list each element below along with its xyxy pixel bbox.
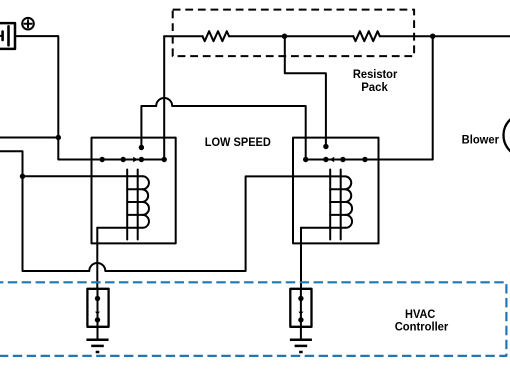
svg-text:Controller: Controller xyxy=(395,320,449,334)
relay K2 coil xyxy=(330,170,352,240)
svg-text:Pack: Pack xyxy=(361,80,388,94)
HVAC controller dashed enclosure xyxy=(0,282,506,356)
wire K1 pivot to K2 input with hop xyxy=(141,98,305,160)
svg-text:Blower: Blower xyxy=(462,134,500,147)
node K2 contact c xyxy=(340,157,345,162)
ground GND1 xyxy=(86,340,108,352)
node blower feed xyxy=(430,34,435,39)
node coil supply tee xyxy=(20,174,25,179)
relay K2 box xyxy=(293,138,379,244)
wire stub left at y=137.5 xyxy=(0,137,58,139)
blower motor M1 xyxy=(504,114,510,157)
node K2 contact d xyxy=(362,157,367,162)
wire K2 coil bottom xyxy=(301,227,346,229)
switch S2 box xyxy=(290,289,311,327)
wire blower node down to K2 contact xyxy=(306,36,433,159)
wire K1 contact d to resistor rail xyxy=(163,36,165,159)
arrow K1 movable contact xyxy=(133,157,138,162)
wire K1 coil bottom xyxy=(97,227,142,229)
wire coil supply net xyxy=(0,151,346,271)
arrow K2 movable contact xyxy=(330,157,335,162)
wire battery to relay K1 common xyxy=(15,36,164,159)
wire K2 coil to switch S2 xyxy=(300,228,302,289)
node K1 pivot xyxy=(139,145,144,150)
relay K1 coil xyxy=(127,170,149,240)
node battery junction xyxy=(56,135,61,140)
resistor pack dashed enclosure xyxy=(173,10,414,57)
switch S1 internals xyxy=(95,289,100,327)
plus terminal symbol xyxy=(22,18,34,30)
node K1 contact a xyxy=(100,157,105,162)
wire K1 coil to switch S1 xyxy=(96,228,98,289)
node K1 contact c xyxy=(139,157,144,162)
battery B1 xyxy=(0,23,15,49)
switch S2 internals xyxy=(298,289,303,327)
switch S1 box xyxy=(87,289,108,327)
wire top rail segment 1 xyxy=(164,35,202,37)
wire S2 to ground xyxy=(300,327,302,340)
node K1 contact d xyxy=(162,157,167,162)
relay K1 box xyxy=(92,138,176,244)
resistor R2 xyxy=(353,31,380,41)
wire top rail segment 3 xyxy=(380,35,510,37)
wire top rail segment 2 xyxy=(229,35,353,37)
node K2 contact b xyxy=(323,157,328,162)
node resistor midpoint xyxy=(282,34,287,39)
ground GND2 xyxy=(290,340,312,352)
wire resistor midpoint to K2 pivot xyxy=(285,36,326,146)
svg-text:LOW SPEED: LOW SPEED xyxy=(205,135,271,149)
node K2 pivot xyxy=(323,144,328,149)
wire S1 to ground xyxy=(97,327,99,340)
node K1 contact b xyxy=(121,157,126,162)
svg-text:Resistor: Resistor xyxy=(353,67,398,81)
resistor R1 xyxy=(203,31,230,41)
node K2 contact a xyxy=(303,157,308,162)
